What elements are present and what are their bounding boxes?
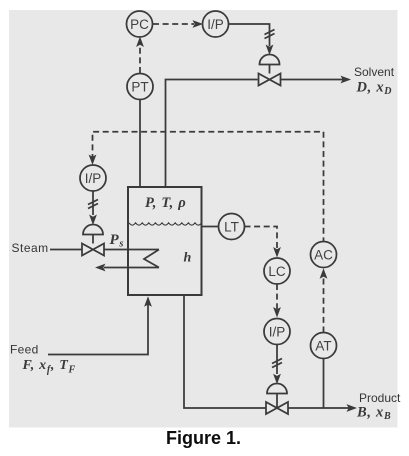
controller LC <box>264 258 290 284</box>
svg-text:Solvent: Solvent <box>354 65 395 79</box>
transducer I/P (top) <box>203 11 229 37</box>
svg-text:PT: PT <box>131 79 148 94</box>
label F, xf, TF (feed stream) <box>22 358 76 376</box>
caption Figure 1. <box>166 428 241 448</box>
wire dashed signal PC to I/P <box>153 20 203 28</box>
wire feed line into vessel <box>48 296 152 354</box>
label D, xD (solvent stream) <box>356 79 393 97</box>
control valve (solvent): valve body <box>259 74 281 86</box>
label Product <box>359 391 401 405</box>
wire I/P to steam valve actuator <box>89 191 97 225</box>
svg-text:AC: AC <box>314 247 333 262</box>
wire dashed signal AT to AC <box>320 268 328 332</box>
label Feed <box>10 343 39 357</box>
svg-text:h: h <box>184 251 193 266</box>
wire solvent outlet line with arrow <box>281 76 352 84</box>
control valve (solvent): actuator dome <box>260 55 280 74</box>
svg-text:I/P: I/P <box>269 324 286 339</box>
svg-text:Steam: Steam <box>12 241 49 255</box>
svg-text:AT: AT <box>315 338 331 353</box>
control valve (product): actuator dome <box>267 384 287 408</box>
svg-text:Figure 1.: Figure 1. <box>166 428 241 448</box>
transducer I/P (left) <box>80 165 106 191</box>
svg-text:LT: LT <box>224 219 239 234</box>
controller AC <box>311 242 337 268</box>
wire vessel bottoms outlet to product line <box>184 295 266 408</box>
pneumatic tick marks on product valve signal <box>272 359 282 368</box>
wire dashed signal PT to PC <box>136 37 144 74</box>
wire steam supply line <box>50 249 159 251</box>
wire AT tap to product line <box>323 359 325 409</box>
svg-text:LC: LC <box>268 264 286 279</box>
pneumatic tick marks on steam valve signal <box>88 200 98 209</box>
wire dashed signal LT to LC <box>245 227 281 258</box>
svg-text:Product: Product <box>359 391 401 405</box>
label h (liquid level) <box>184 251 193 266</box>
wire dashed signal LC to bottom I/P <box>273 284 281 318</box>
control valve (steam): actuator dome <box>83 225 103 244</box>
wire product outlet line with arrow <box>288 404 357 412</box>
wire vapor line from vessel top to solvent valve <box>166 80 258 188</box>
transmitter PT <box>127 74 153 100</box>
wire PT tap line from vessel top <box>139 100 141 188</box>
label Ps (steam pressure) <box>110 232 125 250</box>
svg-text:Feed: Feed <box>10 343 39 357</box>
wire LT tap line <box>202 226 219 228</box>
svg-text:I/P: I/P <box>207 17 224 32</box>
svg-text:PC: PC <box>130 17 149 32</box>
transducer I/P (bottom) <box>264 319 290 345</box>
control valve (steam): valve body <box>82 244 104 256</box>
heating coil inside vessel <box>95 250 159 272</box>
transmitter AT <box>311 333 337 359</box>
label B, xB (product stream) <box>356 404 391 422</box>
svg-text:P, T, ρ: P, T, ρ <box>145 195 186 211</box>
transmitter LT <box>219 214 245 240</box>
vessel (evaporator body) <box>128 187 202 295</box>
pneumatic tick marks on solvent valve signal <box>265 30 275 39</box>
wire I/P to product valve actuator <box>273 345 281 385</box>
svg-text:I/P: I/P <box>85 171 102 186</box>
control valve (product): valve body <box>266 402 288 414</box>
label P, T, rho (vessel vapor) <box>145 195 186 211</box>
label Steam <box>12 241 49 255</box>
label Solvent <box>354 65 395 79</box>
controller PC <box>127 11 153 37</box>
liquid surface wavy line <box>129 223 202 225</box>
wire I/P to solvent valve actuator <box>229 24 274 55</box>
wire dashed signal AC to left I/P (long top run) <box>89 132 324 242</box>
